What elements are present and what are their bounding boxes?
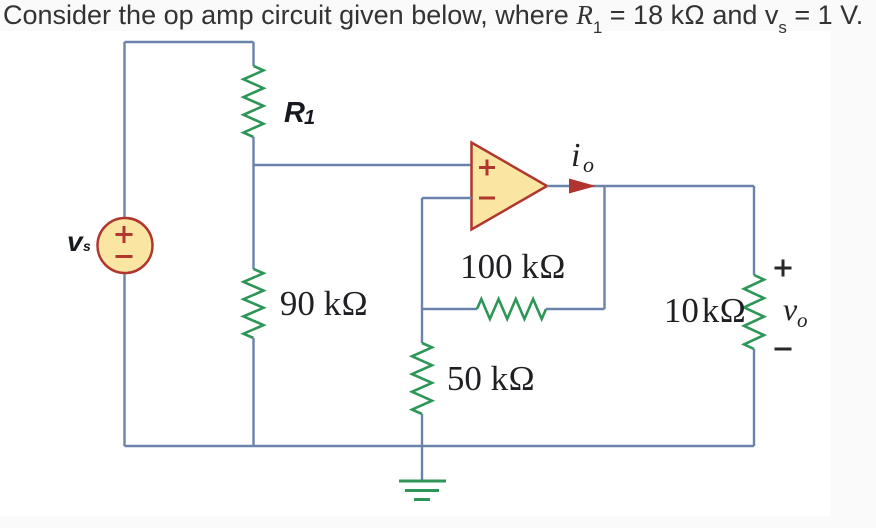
wire noninverting input from node to op-amp xyxy=(254,164,472,166)
label vo xyxy=(783,291,808,332)
wire output horizontal xyxy=(547,185,754,187)
resistor R1 zigzag xyxy=(244,66,264,137)
svg-text:50 kΩ: 50 kΩ xyxy=(447,359,535,398)
svg-text:R: R xyxy=(284,97,305,129)
wire 100k right xyxy=(546,308,605,310)
wire 100k left xyxy=(422,308,477,310)
label minus vo polarity xyxy=(775,348,792,351)
arrow current io xyxy=(569,179,596,194)
label vs xyxy=(67,226,91,257)
wire bottom xyxy=(125,445,755,447)
resistor 50k zigzag xyxy=(412,343,432,414)
wire R1 branch top xyxy=(252,42,254,66)
wire right branch top xyxy=(753,186,755,275)
ground xyxy=(399,481,446,500)
wire top from source to R1 branch xyxy=(125,41,254,43)
wire 50k top xyxy=(421,309,423,343)
wire 50k bottom xyxy=(421,414,423,446)
svg-text:1: 1 xyxy=(304,107,315,129)
wire right branch bottom xyxy=(753,349,755,446)
op-amp U1 xyxy=(472,143,548,230)
wire ground stem xyxy=(421,446,423,480)
svg-text:90 kΩ: 90 kΩ xyxy=(280,284,368,323)
wire R1 to 90k resistor xyxy=(252,137,254,269)
svg-text:o: o xyxy=(797,308,808,332)
svg-text:i: i xyxy=(571,137,580,174)
wire 90k to bottom xyxy=(252,338,254,446)
svg-text:o: o xyxy=(583,152,594,177)
svg-text:s: s xyxy=(83,238,91,254)
svg-text:v: v xyxy=(67,226,84,257)
resistor 90k zigzag xyxy=(244,269,264,338)
svg-text:10 kΩ: 10 kΩ xyxy=(664,291,746,330)
svg-text:100 kΩ: 100 kΩ xyxy=(460,247,566,286)
resistor 10k zigzag xyxy=(744,275,764,349)
svg-text:v: v xyxy=(783,291,798,327)
label R1 xyxy=(284,97,315,129)
wire inverting input xyxy=(422,197,472,199)
wire left vertical through source vs xyxy=(123,42,125,446)
wire output feedback vertical xyxy=(603,186,605,309)
label io xyxy=(571,137,594,177)
wire feedback vertical left xyxy=(421,198,423,309)
resistor 100k zigzag xyxy=(477,299,546,319)
label plus vo polarity xyxy=(775,260,792,277)
source vs xyxy=(98,218,153,273)
